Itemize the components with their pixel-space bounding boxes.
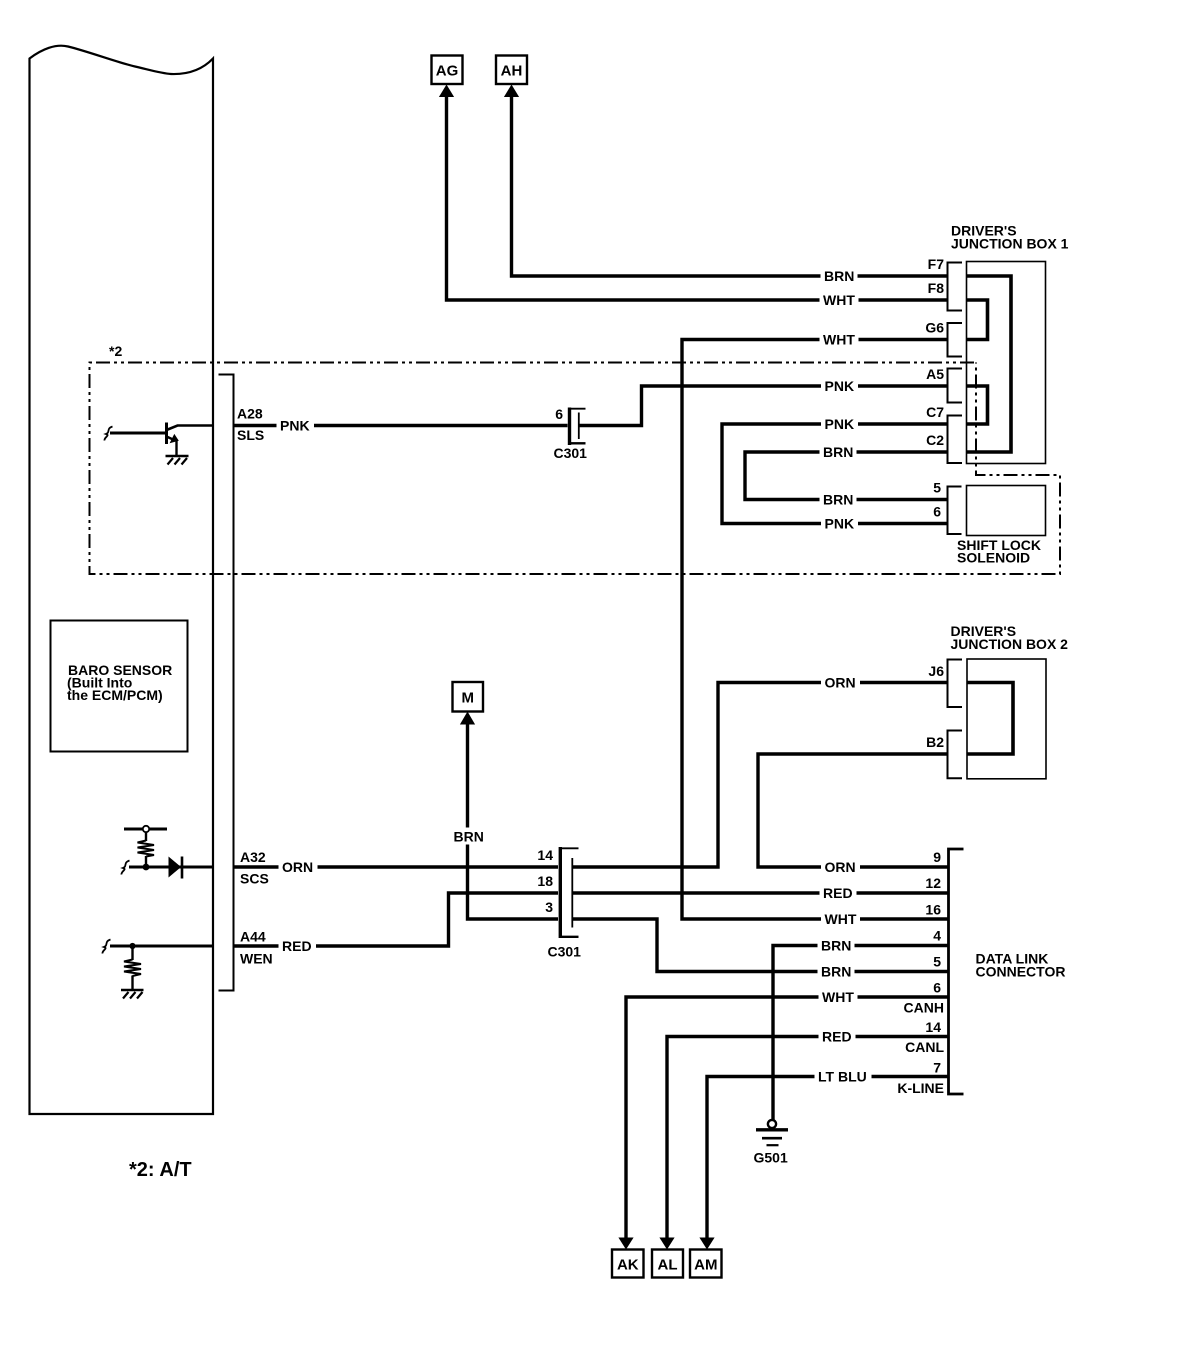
svg-text:RED: RED <box>282 938 312 954</box>
svg-text:AM: AM <box>694 1257 717 1274</box>
connector C301 pin 6 <box>568 408 586 446</box>
svg-text:WHT: WHT <box>823 292 855 308</box>
svg-text:SCS: SCS <box>240 871 269 887</box>
svg-text:J6: J6 <box>928 663 944 679</box>
svg-text:5: 5 <box>933 954 941 970</box>
wire C2 to solenoid 5 (BRN) <box>745 452 948 500</box>
break mark at A32 wire <box>121 861 129 875</box>
svg-text:BRN: BRN <box>454 829 484 845</box>
connector C301 pins 14/18/3 <box>559 847 579 938</box>
junction box 2 bracket B2 <box>948 731 963 779</box>
svg-text:ORN: ORN <box>825 675 856 691</box>
connector AM (to other sheet) <box>699 1238 714 1250</box>
break mark at base wire <box>104 427 112 441</box>
wire colour label PNK (solenoid 6) <box>821 515 858 532</box>
svg-text:RED: RED <box>823 885 853 901</box>
svg-text:12: 12 <box>925 875 941 891</box>
svg-text:SLS: SLS <box>237 427 264 443</box>
wire A32 internal <box>129 866 213 869</box>
wire B2 to DLC 9 (ORN) <box>758 754 949 867</box>
svg-text:18: 18 <box>537 873 553 889</box>
wire colour label WHT (DLC 6) <box>819 989 858 1006</box>
wire C301-3 to DLC 5 (BRN) <box>573 919 949 972</box>
wire DLC 4 to G501 (BRN) <box>773 946 949 1120</box>
svg-text:ORN: ORN <box>825 859 856 875</box>
svg-text:BRN: BRN <box>821 938 851 954</box>
break mark at A44 wire <box>102 940 110 954</box>
junction box 1 bracket A5 <box>948 369 963 403</box>
wire AH to F7 (BRN) <box>512 96 948 277</box>
svg-text:*2: *2 <box>109 343 122 359</box>
junction box 1 internal link A5-C7 <box>967 386 988 424</box>
wire colour label PNK (A5) <box>821 378 858 395</box>
svg-text:CANL: CANL <box>905 1039 944 1055</box>
svg-text:C301: C301 <box>548 944 582 960</box>
svg-text:ORN: ORN <box>282 859 313 875</box>
wire A32/SCS to C301-14 (ORN) <box>235 865 559 868</box>
wire DLC 6 CANH to AK (WHT) <box>626 997 949 1238</box>
wire colour label PNK (C7) <box>821 416 858 433</box>
svg-text:AG: AG <box>436 63 459 80</box>
transistor emitter with arrow <box>167 437 174 440</box>
wire DLC 14 CANL to AL (RED) <box>667 1037 949 1239</box>
svg-text:A32: A32 <box>240 849 266 865</box>
ECM connector bracket <box>219 375 234 991</box>
wire C301-18 to DLC 12 (RED) <box>573 891 949 894</box>
wire colour label ORN (DLC 9) <box>821 859 860 876</box>
svg-text:4: 4 <box>933 928 941 944</box>
svg-text:K-LINE: K-LINE <box>897 1080 944 1096</box>
svg-text:PNK: PNK <box>825 516 855 532</box>
wire colour label BRN (C2) <box>820 444 857 461</box>
ECM/PCM body outline (torn-top rectangle) <box>30 46 214 1114</box>
ground (transistor emitter) <box>166 456 189 465</box>
resistor (SCS pull-up, inside ECM) <box>124 826 167 866</box>
arrow into M <box>460 712 475 725</box>
svg-text:WEN: WEN <box>240 951 273 967</box>
svg-text:PNK: PNK <box>825 416 855 432</box>
svg-text:*2: A/T: *2: A/T <box>129 1159 192 1181</box>
svg-text:AL: AL <box>658 1257 678 1274</box>
shift lock solenoid bracket <box>948 487 962 535</box>
transistor base bar <box>165 423 168 445</box>
wire colour label RED (A44) <box>279 938 317 955</box>
transistor collector <box>167 426 214 431</box>
wire A44/WEN to C301-18 (RED) <box>235 893 559 946</box>
svg-text:BRN: BRN <box>821 964 851 980</box>
svg-text:F7: F7 <box>928 256 945 272</box>
svg-text:AK: AK <box>617 1257 639 1274</box>
wire AG to F8 (WHT) <box>447 96 948 301</box>
svg-text:6: 6 <box>555 406 563 422</box>
junction box 2 bracket J6 <box>948 660 963 708</box>
svg-text:LT BLU: LT BLU <box>818 1069 867 1085</box>
svg-text:PNK: PNK <box>280 418 310 434</box>
junction box 1 bracket C7/C2 <box>948 416 963 464</box>
wire C301-14 to J6 (ORN) <box>573 683 948 868</box>
junction box 1 bracket G6 <box>948 323 963 357</box>
svg-text:JUNCTION BOX 1: JUNCTION BOX 1 <box>951 236 1069 252</box>
wire colour label ORN (A32) <box>279 859 318 876</box>
wire colour label BRN (F7) <box>821 268 858 285</box>
connector AG (to other sheet) <box>432 56 463 85</box>
svg-text:SOLENOID: SOLENOID <box>957 550 1030 566</box>
svg-text:BRN: BRN <box>824 268 854 284</box>
svg-text:M: M <box>462 690 475 707</box>
shift lock solenoid body <box>967 486 1046 536</box>
wire G6 to DLC 16 (WHT) <box>682 340 949 920</box>
resistor (WEN pull-down, inside ECM) <box>124 947 141 989</box>
arrow into AH <box>504 85 519 98</box>
driver's junction box 1 body <box>967 262 1046 464</box>
wire colour label WHT (DLC 16) <box>821 911 860 928</box>
svg-text:C7: C7 <box>926 404 944 420</box>
svg-text:PNK: PNK <box>825 378 855 394</box>
junction box 1 internal link F8-G6 <box>967 300 988 340</box>
svg-text:WHT: WHT <box>823 332 855 348</box>
svg-text:RED: RED <box>822 1029 852 1045</box>
wire colour label BRN (M feed) <box>451 828 488 845</box>
wire C7 to solenoid 6 (PNK) <box>722 424 948 524</box>
data link connector bracket <box>949 849 964 1094</box>
junction box 2 internal link J6-B2 <box>967 683 1013 755</box>
wire colour label BRN (DLC 5) <box>818 963 855 980</box>
svg-text:6: 6 <box>933 980 941 996</box>
ground (WEN resistor) <box>121 990 144 999</box>
wire colour label BRN (solenoid 5) <box>820 491 857 508</box>
svg-text:6: 6 <box>933 504 941 520</box>
wire M to C301-3 (BRN) <box>468 724 559 919</box>
svg-text:B2: B2 <box>926 734 944 750</box>
junction node A44 <box>129 943 135 949</box>
svg-text:A5: A5 <box>926 366 944 382</box>
svg-text:A28: A28 <box>237 406 263 422</box>
wire DLC 7 K-LINE to AM (LT BLU) <box>707 1077 949 1239</box>
junction box 1 internal link F7-C2 <box>967 276 1012 452</box>
wire colour label RED (DLC 12) <box>820 885 857 902</box>
svg-text:G501: G501 <box>754 1150 788 1166</box>
svg-text:BRN: BRN <box>823 492 853 508</box>
connector M (motor feed) <box>453 682 484 712</box>
svg-text:3: 3 <box>545 899 553 915</box>
connector AK (to other sheet) <box>618 1238 633 1250</box>
wire colour label PNK (A28) <box>277 417 315 434</box>
svg-text:A44: A44 <box>240 929 266 945</box>
baro sensor box <box>51 621 188 752</box>
junction node A32 <box>143 864 150 871</box>
svg-text:5: 5 <box>933 480 941 496</box>
svg-text:WHT: WHT <box>822 989 854 1005</box>
svg-text:G6: G6 <box>925 320 944 336</box>
wire colour label WHT (F8) <box>820 292 859 309</box>
wire colour label RED (DLC 14) <box>819 1028 856 1045</box>
svg-text:CONNECTOR: CONNECTOR <box>976 964 1066 980</box>
wire C301-6 to A5 (PNK) <box>580 386 948 426</box>
svg-text:BRN: BRN <box>823 444 853 460</box>
wire colour label LT BLU (DLC 7) <box>815 1068 872 1085</box>
svg-text:JUNCTION BOX 2: JUNCTION BOX 2 <box>951 636 1069 652</box>
svg-text:CANH: CANH <box>904 1000 944 1016</box>
connector AH (to other sheet) <box>496 56 527 85</box>
svg-text:C2: C2 <box>926 432 944 448</box>
wire colour label BRN (DLC 4) <box>818 937 855 954</box>
wire transistor base <box>110 432 165 435</box>
wire A28/SLS to C301-6 (PNK) <box>235 424 568 427</box>
svg-text:AH: AH <box>501 63 523 80</box>
arrow into AG <box>439 85 454 98</box>
svg-text:9: 9 <box>933 849 941 865</box>
A/T dashed boundary (*2) <box>90 363 1061 575</box>
wire colour label ORN (J6) <box>821 674 860 691</box>
svg-text:16: 16 <box>925 902 941 918</box>
svg-text:7: 7 <box>933 1060 941 1076</box>
svg-text:14: 14 <box>537 847 553 863</box>
driver's junction box 2 body <box>967 659 1046 779</box>
diode D1 (SCS, inside ECM) <box>169 857 183 879</box>
wire colour label WHT (G6) <box>820 331 859 348</box>
svg-text:the ECM/PCM): the ECM/PCM) <box>67 687 163 703</box>
junction box 1 bracket F7/F8 <box>948 263 963 311</box>
svg-text:C301: C301 <box>554 445 588 461</box>
ground G501 <box>756 1120 788 1145</box>
transistor Q1 (SLS driver, inside ECM) <box>104 423 213 457</box>
svg-text:WHT: WHT <box>825 911 857 927</box>
connector AL (to other sheet) <box>659 1238 674 1250</box>
svg-text:F8: F8 <box>928 280 945 296</box>
wire A44 internal <box>110 945 213 948</box>
svg-text:14: 14 <box>925 1019 941 1035</box>
